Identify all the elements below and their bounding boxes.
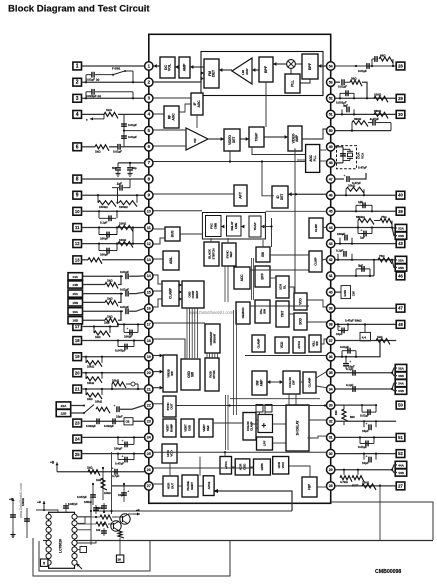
pin 36 xyxy=(327,353,335,361)
svg-text:+: + xyxy=(339,325,341,329)
svg-text:35A: 35A xyxy=(398,258,404,262)
pin 3 xyxy=(145,94,153,102)
block RGB MATRIX xyxy=(205,358,219,391)
terminal 8 xyxy=(73,175,82,183)
svg-text:100Ω: 100Ω xyxy=(362,480,370,484)
wire row210 long xyxy=(266,210,327,212)
svg-text:0.047µF: 0.047µF xyxy=(77,495,87,499)
svg-text:0.01µF: 0.01µF xyxy=(120,270,129,274)
pin 54 xyxy=(327,62,335,70)
terminal 15A xyxy=(68,290,83,297)
svg-text:+: + xyxy=(122,454,124,458)
wire VREF-CCLAMP xyxy=(214,422,243,424)
limiter amp A1 xyxy=(232,58,252,84)
terminal 26 (bottom) xyxy=(119,541,121,556)
resistor 10kΩ (pin20) xyxy=(85,373,87,379)
IF section box xyxy=(201,52,323,96)
wire APC1 drop xyxy=(224,452,226,456)
pin 30 xyxy=(327,449,335,457)
svg-text:100pF: 100pF xyxy=(100,237,109,241)
capacitor 0.001uF (row30) xyxy=(339,93,341,98)
svg-text:41: 41 xyxy=(329,274,333,278)
wire pin21-YSW xyxy=(153,387,163,389)
wire pin7 drop to IDENT xyxy=(262,162,274,196)
wire grey right drop xyxy=(90,498,92,545)
svg-text:0.01µF (s): 0.01µF (s) xyxy=(86,77,99,81)
svg-text:24: 24 xyxy=(75,437,80,442)
svg-text:AGC: AGC xyxy=(197,100,201,108)
capacitor 1uF (row39) xyxy=(355,205,357,211)
svg-text:1kΩ: 1kΩ xyxy=(107,297,113,301)
svg-text:22A: 22A xyxy=(61,404,67,408)
U2 pin R5 xyxy=(72,540,77,545)
U2 pin L3 xyxy=(46,527,51,532)
capacitor Q cluster xyxy=(101,530,107,532)
block IF AGC xyxy=(191,93,203,115)
capacitor 0.47uF (pin25) xyxy=(117,454,119,460)
U2 pin L4 xyxy=(46,534,51,539)
svg-text:26: 26 xyxy=(147,468,151,472)
block CLMP2 xyxy=(309,218,323,238)
terminal 28 xyxy=(396,62,405,70)
bus CLAMP vertical xyxy=(225,395,227,450)
U2 pin R6 xyxy=(72,547,77,552)
arrow into TRAP xyxy=(261,225,264,229)
wire right drop xyxy=(379,484,381,541)
terminal 12 xyxy=(73,240,82,248)
svg-text:18: 18 xyxy=(147,339,151,343)
block SW AMP xyxy=(252,371,267,395)
resistor 1k (row 339) xyxy=(376,339,390,345)
wire U2 R1 xyxy=(77,511,91,517)
terminal 15B xyxy=(68,299,83,306)
svg-text:51: 51 xyxy=(329,113,333,117)
svg-text:VCO: VCO xyxy=(280,341,284,348)
wire pin4 to RF AGC xyxy=(153,113,164,115)
terminal 46 xyxy=(396,272,405,280)
U2 pin R8 xyxy=(72,560,77,565)
resistor 1k (pin17) xyxy=(93,327,95,334)
wire row47 xyxy=(335,307,396,309)
wire pin20-YSW xyxy=(153,371,163,373)
svg-text:APC2: APC2 xyxy=(207,481,211,489)
block HOR OUT xyxy=(163,476,178,496)
block VERT REF xyxy=(199,419,213,437)
svg-text:39: 39 xyxy=(398,209,403,214)
wire adder-1H xyxy=(273,423,286,425)
svg-text:DIF: DIF xyxy=(292,380,296,385)
wire 1H out xyxy=(309,419,327,421)
block VIDEO AMP xyxy=(288,126,302,151)
crystal X1 dashed box xyxy=(337,146,357,169)
svg-text:1µF: 1µF xyxy=(343,103,348,107)
svg-text:SW: SW xyxy=(191,372,195,377)
wire CLAMP-OSD c xyxy=(179,298,182,300)
terminal 25 xyxy=(73,451,82,459)
wire SW1-CLMP1 xyxy=(270,254,309,256)
terminal 44B xyxy=(395,469,407,476)
wire row355 interior xyxy=(245,355,327,357)
svg-text:0.01µF: 0.01µF xyxy=(338,84,347,88)
wire pin22-SYNCOUT xyxy=(153,403,163,405)
wire pin17 xyxy=(83,324,145,326)
wire APC2 feed xyxy=(216,491,292,511)
wire AGC PLL pin b xyxy=(319,160,327,162)
wire HORVCO down xyxy=(169,463,171,476)
svg-text:52: 52 xyxy=(329,97,333,101)
wire pin12-BUS xyxy=(153,238,165,244)
wire 1CH-VCO xyxy=(289,287,294,293)
resistor/cap network 16A-16B xyxy=(83,310,124,312)
svg-text:75Ω: 75Ω xyxy=(379,254,385,258)
terminal 2 xyxy=(73,78,82,86)
block ABL xyxy=(163,251,179,270)
supply arrow +B (Q) xyxy=(133,513,140,515)
svg-text:14B: 14B xyxy=(72,283,78,287)
svg-text:1µF: 1µF xyxy=(358,200,363,204)
svg-text:23: 23 xyxy=(147,420,151,424)
switch network 22A-22B xyxy=(71,405,84,407)
IC U2 LC78620 xyxy=(49,512,75,568)
wire APC1-HOR OSD xyxy=(232,466,236,468)
svg-text:100kΩ: 100kΩ xyxy=(119,205,128,209)
terminal 34B xyxy=(395,387,407,394)
arrow TRAP-DELAY xyxy=(241,225,244,229)
wire VCO1 pin xyxy=(307,300,327,307)
switch FM-SW1 xyxy=(113,71,124,75)
supply arrow +B (U2) xyxy=(43,501,45,510)
svg-text:F-SW1: F-SW1 xyxy=(112,67,121,71)
GND tap xyxy=(335,291,341,293)
resistor 100 (row484) xyxy=(362,484,376,490)
adder xyxy=(258,415,273,433)
svg-text:15A: 15A xyxy=(72,292,78,296)
svg-text:13: 13 xyxy=(75,257,80,262)
svg-text:VCO: VCO xyxy=(299,298,303,305)
block VCO1 xyxy=(294,293,307,310)
resistor 1k (pin6) xyxy=(95,145,109,151)
wire ground bus xyxy=(43,540,433,542)
wire row44ab xyxy=(335,465,397,470)
wire ACC-CLMP1 xyxy=(250,269,309,271)
pin 31 xyxy=(327,433,335,441)
bus ident vertical xyxy=(251,258,253,300)
svg-text:29: 29 xyxy=(398,96,403,101)
arrow DELAY-FSC xyxy=(221,225,224,229)
U2 pin R1 xyxy=(72,514,77,519)
svg-text:DET: DET xyxy=(280,194,284,200)
capacitor 0.01uF (pin5 upper) xyxy=(123,114,125,146)
svg-text:49: 49 xyxy=(329,145,333,149)
block BPF2 xyxy=(302,54,318,79)
pin 4 xyxy=(145,110,153,118)
wire pin12 xyxy=(82,243,145,245)
block TINT xyxy=(276,301,289,327)
svg-text:13: 13 xyxy=(147,258,151,262)
svg-text:OUT: OUT xyxy=(170,403,174,409)
resistor emitter xyxy=(118,530,124,538)
terminal 48 xyxy=(396,321,405,329)
wire FM DET-LIM xyxy=(219,69,232,71)
svg-text:www.DataSheet4U.com: www.DataSheet4U.com xyxy=(189,310,234,315)
wire mid drop xyxy=(93,510,292,512)
capacitor 0.047uF (pin18) xyxy=(117,341,119,347)
pin 16 xyxy=(145,304,153,312)
wire COLOR-1H xyxy=(288,394,290,405)
delay-line box xyxy=(202,213,265,240)
svg-text:46: 46 xyxy=(329,194,333,198)
pin 9 xyxy=(145,191,153,199)
wire row50a xyxy=(335,340,396,342)
svg-text:10kΩ: 10kΩ xyxy=(95,400,103,404)
wire TINT-SOD xyxy=(289,313,294,315)
block VCO2 xyxy=(275,337,289,353)
resistor 1k (pin21) xyxy=(85,389,87,395)
terminal 18 xyxy=(73,337,82,345)
svg-text:CLAMP: CLAMP xyxy=(257,338,261,348)
pin 18 xyxy=(145,336,153,344)
svg-text:27: 27 xyxy=(398,483,403,488)
wire pin26 xyxy=(56,471,58,473)
svg-text:0.01µF: 0.01µF xyxy=(340,345,349,349)
wire LPF-up xyxy=(259,412,261,415)
wire pin2 row xyxy=(82,81,145,83)
svg-text:LC78620: LC78620 xyxy=(59,539,63,553)
svg-text:1kΩ: 1kΩ xyxy=(104,321,110,325)
terminal 3 xyxy=(73,94,82,102)
svg-text:390Ω: 390Ω xyxy=(354,117,362,121)
wire CLMP1 pin xyxy=(322,259,327,260)
svg-text:43: 43 xyxy=(329,242,333,246)
wire PHASE-APC2 xyxy=(197,485,203,487)
block 1CH DL xyxy=(276,276,289,298)
pin 51 xyxy=(327,110,335,118)
svg-text:30: 30 xyxy=(329,452,333,456)
svg-text:31: 31 xyxy=(329,436,333,440)
svg-text:34B: 34B xyxy=(398,389,404,393)
svg-text:AMP: AMP xyxy=(260,380,264,387)
svg-text:1kΩ: 1kΩ xyxy=(87,397,93,401)
svg-text:19: 19 xyxy=(75,354,80,359)
svg-text:12: 12 xyxy=(147,242,151,246)
wire pin10 elbow xyxy=(153,210,202,212)
pin 21 xyxy=(145,385,153,393)
svg-text:AMP: AMP xyxy=(295,134,299,142)
wire pin7 to AGC PLL xyxy=(230,161,306,163)
svg-text:BPF: BPF xyxy=(308,62,312,70)
svg-text:10kΩ: 10kΩ xyxy=(112,379,120,383)
U2 pin L2 xyxy=(46,521,51,526)
terminal 36B xyxy=(395,372,407,379)
svg-text:42: 42 xyxy=(329,258,333,262)
capacitor left string 2 xyxy=(26,508,28,538)
pin 20 xyxy=(145,369,153,377)
pin 12 xyxy=(145,239,153,247)
wire COLOR-CLAMP4 xyxy=(300,381,303,383)
svg-text:CLMP: CLMP xyxy=(314,224,318,232)
VIF amp A2 xyxy=(186,128,208,150)
svg-text:1kΩ: 1kΩ xyxy=(95,149,101,153)
mixer M1 xyxy=(287,60,296,69)
pin 34 xyxy=(327,385,335,393)
svg-text:1µF: 1µF xyxy=(117,182,122,186)
resistor 680 (row31) xyxy=(374,112,388,118)
svg-text:DET: DET xyxy=(232,137,236,143)
wire pin8 xyxy=(82,178,145,180)
svg-text:40: 40 xyxy=(329,290,333,294)
wire pin54-term28 xyxy=(335,65,396,67)
capacitor 0.047uF (bottom) xyxy=(92,484,94,505)
resistor 820 pair (row403) xyxy=(335,404,344,406)
svg-text:BPF: BPF xyxy=(264,65,268,73)
svg-text:50p: 50p xyxy=(112,166,117,170)
svg-text:44A: 44A xyxy=(398,463,404,467)
resistor 1k (pin4) xyxy=(104,112,118,118)
svg-text:4.7µF: 4.7µF xyxy=(112,474,120,478)
terminal 22A xyxy=(56,402,70,409)
block HOR VCO xyxy=(162,444,177,463)
svg-text:100Ω: 100Ω xyxy=(119,222,127,226)
svg-text:BRIGHT: BRIGHT xyxy=(213,333,217,343)
resistor 1k (pin26) xyxy=(88,470,100,476)
capacitor 100uF (row43) xyxy=(339,238,341,244)
svg-text:1kΩ: 1kΩ xyxy=(377,335,383,339)
svg-text:36A: 36A xyxy=(398,367,404,371)
svg-text:51: 51 xyxy=(398,435,403,440)
svg-text:DEMOD: DEMOD xyxy=(241,307,245,319)
terminal 22B xyxy=(56,409,70,416)
wire row52 xyxy=(335,453,396,455)
svg-text:23: 23 xyxy=(75,421,80,426)
block BPF3 xyxy=(255,266,270,287)
pin 17 xyxy=(145,320,153,328)
svg-text:4: 4 xyxy=(76,112,79,118)
block DIV xyxy=(273,457,289,475)
svg-text:1µF: 1µF xyxy=(358,263,363,267)
wire CLAMP4 pin b xyxy=(316,386,327,388)
wire U2 R5 xyxy=(77,541,96,544)
wire pin1 to DC VOL xyxy=(153,65,160,67)
svg-text:VIF: VIF xyxy=(193,138,197,143)
wire pin3 to IF AGC xyxy=(153,97,191,99)
wire box-BLACK STR xyxy=(210,238,212,242)
svg-text:0.1µF: 0.1µF xyxy=(346,367,354,371)
block APC1 xyxy=(220,457,232,475)
svg-text:PLL: PLL xyxy=(313,155,317,161)
block CLAMP L xyxy=(162,281,179,306)
capacitor cluster b xyxy=(103,503,105,512)
svg-text:TRAP: TRAP xyxy=(253,222,257,230)
wire LIM-BPF1 xyxy=(252,69,259,71)
svg-text:AMP: AMP xyxy=(183,63,187,71)
svg-text:+: + xyxy=(349,360,351,364)
svg-text:0.47µF: 0.47µF xyxy=(370,117,379,121)
resistor 75 (row35) xyxy=(378,258,392,264)
resistor 10k (bottom) xyxy=(102,468,104,500)
svg-text:VOL: VOL xyxy=(168,63,172,71)
resistor base Q1 xyxy=(96,522,108,528)
capacitor left string 1 xyxy=(12,505,14,538)
U2 bottom arrow xyxy=(77,564,83,570)
svg-text:37: 37 xyxy=(329,339,333,343)
svg-text:36B: 36B xyxy=(398,374,404,378)
capacitor 10uF (row48) xyxy=(337,324,339,330)
block BUS xyxy=(165,227,180,241)
capacitor chain (pin23) xyxy=(82,420,145,422)
pin 19 xyxy=(145,353,153,361)
svg-text:6: 6 xyxy=(76,144,79,150)
svg-text:10k: 10k xyxy=(96,528,101,532)
svg-text:+: + xyxy=(366,422,368,426)
svg-text:25: 25 xyxy=(147,452,151,456)
terminal 24 xyxy=(73,435,82,443)
wire AGC PLL left xyxy=(297,159,305,161)
svg-text:100µF: 100µF xyxy=(337,232,345,236)
svg-text:ABL: ABL xyxy=(169,256,173,264)
svg-text:5: 5 xyxy=(43,562,45,566)
svg-text:680kΩ: 680kΩ xyxy=(356,215,365,219)
terminal 5 (U2) xyxy=(41,559,48,566)
RC branch 0.01uF/39 (row29) xyxy=(335,81,340,83)
svg-text:35B: 35B xyxy=(398,266,404,270)
svg-text:BPF: BPF xyxy=(261,273,265,279)
bus RGB vertical xyxy=(233,310,235,415)
svg-text:+B: +B xyxy=(50,461,55,465)
pin 6 xyxy=(145,143,153,151)
svg-text:1kΩ: 1kΩ xyxy=(107,314,113,318)
svg-text:100µF: 100µF xyxy=(124,334,132,338)
capacitor 0.01uF (pin6) xyxy=(117,144,119,150)
wire row34ab xyxy=(335,383,397,389)
U2 pin R7 xyxy=(72,553,77,558)
svg-text:16B: 16B xyxy=(72,319,78,323)
svg-text:0.47µF: 0.47µF xyxy=(115,462,124,466)
svg-text:0.022µF (s): 0.022µF (s) xyxy=(86,94,101,98)
wire row39 xyxy=(335,210,396,212)
svg-text:10: 10 xyxy=(75,209,80,214)
pin 44 xyxy=(327,223,335,231)
svg-text:+: + xyxy=(344,174,346,178)
svg-text:46: 46 xyxy=(398,273,403,278)
capacitor cluster a xyxy=(95,505,97,514)
svg-text:14: 14 xyxy=(147,274,151,278)
pin 38 xyxy=(327,320,335,328)
svg-text:33B: 33B xyxy=(398,234,404,238)
wire row468 to X-RAY xyxy=(153,467,254,469)
capacitor 0.01uF (pin2) xyxy=(85,75,87,83)
svg-text:LPF: LPF xyxy=(263,441,267,447)
wire VIDEO DET-TRAP xyxy=(240,138,249,140)
capacitor pin7 b xyxy=(129,163,131,167)
box U2 R6 xyxy=(80,547,87,553)
svg-text:40: 40 xyxy=(398,193,403,198)
svg-text:100kΩ: 100kΩ xyxy=(21,498,25,506)
U2 pin L7 xyxy=(46,553,51,558)
capacitor 0.01uF (row403) xyxy=(361,405,363,412)
svg-text:AMP: AMP xyxy=(245,68,249,75)
svg-text:43: 43 xyxy=(398,241,403,246)
wire row48 xyxy=(335,323,396,325)
svg-text:15: 15 xyxy=(147,290,151,294)
svg-text:24: 24 xyxy=(147,436,151,440)
block COLOR DIF xyxy=(283,371,300,394)
wire pin7 stub xyxy=(118,162,145,164)
svg-text:+: + xyxy=(127,490,129,494)
svg-text:48: 48 xyxy=(398,322,403,327)
svg-text:14A: 14A xyxy=(72,275,78,279)
svg-text:15B: 15B xyxy=(72,301,78,305)
block VERT RAMP xyxy=(163,419,176,437)
